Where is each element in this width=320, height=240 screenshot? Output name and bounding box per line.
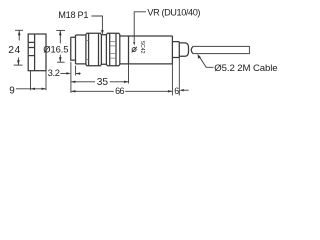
extension line 9 left (30, 71, 32, 91)
sensing face step edge (75, 35, 77, 64)
extension line 9 right (45, 71, 47, 91)
hex nut 1 left facet line (88, 33, 90, 66)
dim 24 lower shaft (17, 58, 19, 66)
extension line body end (66 right / 6 left) (171, 64, 173, 96)
nut 1 thread tick 2 (86, 59, 89, 61)
dim 35 line left part (71, 81, 95, 83)
svg-text:24: 24 (8, 45, 20, 56)
front barrel top and bottom edges (76, 35, 86, 64)
hex nut 2 outline (106, 33, 119, 66)
nut 1 thread tick 1 (86, 40, 89, 42)
svg-text:M18 P1: M18 P1 (58, 10, 88, 20)
dim 16.5 up arrowhead (59, 31, 62, 36)
dim 35 line right part (110, 81, 129, 83)
dim 24 up arrowhead (18, 31, 21, 36)
extension line 6 right (178, 58, 180, 96)
trimpot VR circle with slot (132, 47, 137, 53)
nut 2 thread tick 2 (110, 45, 116, 47)
dim 9 left arrowhead (31, 88, 36, 90)
end view groove tick 3 (28, 55, 34, 57)
body joint line (128, 36, 130, 64)
M18 P1 leader line (92, 16, 103, 31)
dim 16.5 upper shaft (59, 30, 61, 43)
svg-text:SC42: SC42 (139, 41, 145, 54)
hex nut 1 right facet line (98, 33, 100, 66)
dim 16.5 lower shaft (59, 55, 61, 63)
dim 66 line left part (71, 90, 114, 92)
dim 24 upper shaft (18, 30, 20, 40)
dim 66 line right part (125, 90, 172, 92)
dim 9 line (16, 88, 46, 90)
dim 16.5 bottom tick (57, 61, 65, 63)
dim 3.2 right tail (76, 73, 81, 75)
dim 3.2 left arrowhead (66, 72, 71, 74)
extension line at sensing face front (70, 62, 72, 93)
dim 6 right arrowhead (179, 89, 184, 91)
dim 66 right arrowhead (168, 90, 173, 92)
threaded section between nuts (101, 35, 106, 65)
hex nut 1 outline (86, 33, 102, 66)
VR leader arrowhead (133, 42, 135, 46)
svg-text:66: 66 (115, 86, 124, 96)
dim 16.5 top tick (56, 29, 65, 31)
dim 24 bottom tick (14, 64, 23, 66)
nut 2 thread tick 4 (110, 57, 116, 59)
dim 66 left arrowhead (71, 90, 76, 92)
cable outline (192, 46, 249, 53)
extension line 3.2 right (75, 66, 77, 76)
M18 leader arrowhead (101, 30, 104, 34)
hex nut 2 left facet line (109, 33, 111, 66)
strain relief boot (179, 43, 188, 56)
svg-text:6: 6 (174, 86, 179, 96)
svg-text:Ø16.5: Ø16.5 (43, 43, 68, 54)
nut 2 thread tick 3 (110, 53, 116, 55)
end view groove tick 2 (28, 47, 34, 49)
dim 3.2 right arrowhead (76, 72, 81, 74)
hex nut 2 right facet line (115, 33, 117, 66)
end view outline (side plate of sensor head) (28, 34, 46, 71)
cable label leader line (199, 57, 213, 68)
dim 24 down arrowhead (17, 60, 20, 65)
main body outline (120, 36, 173, 64)
dim 3.2 left shaft (60, 72, 67, 74)
svg-text:Ø5.2 2M Cable: Ø5.2 2M Cable (214, 63, 277, 74)
end view groove tick 1 (28, 41, 34, 43)
end view inner edge line (34, 34, 36, 71)
dim 35 left arrowhead (71, 81, 76, 83)
dim 6 right tail (184, 89, 189, 91)
VR leader line (134, 12, 146, 41)
cable leader arrowhead (198, 54, 201, 59)
sensing face cylinder (71, 37, 76, 60)
dim 35 right arrowhead (124, 81, 129, 83)
nut 2 thread tick 1 (110, 41, 116, 43)
extension line 35 right (128, 64, 130, 84)
cable gland collar (172, 42, 179, 58)
svg-text:VR (DU10/40): VR (DU10/40) (147, 7, 200, 17)
dim 24 top tick (15, 29, 23, 31)
svg-text:3.2: 3.2 (48, 67, 60, 78)
dim 9 right arrowhead (42, 88, 47, 90)
cable entry arc (191, 46, 193, 53)
dim 16.5 down arrowhead (59, 57, 62, 62)
svg-text:9: 9 (9, 86, 15, 97)
svg-text:35: 35 (97, 77, 109, 88)
